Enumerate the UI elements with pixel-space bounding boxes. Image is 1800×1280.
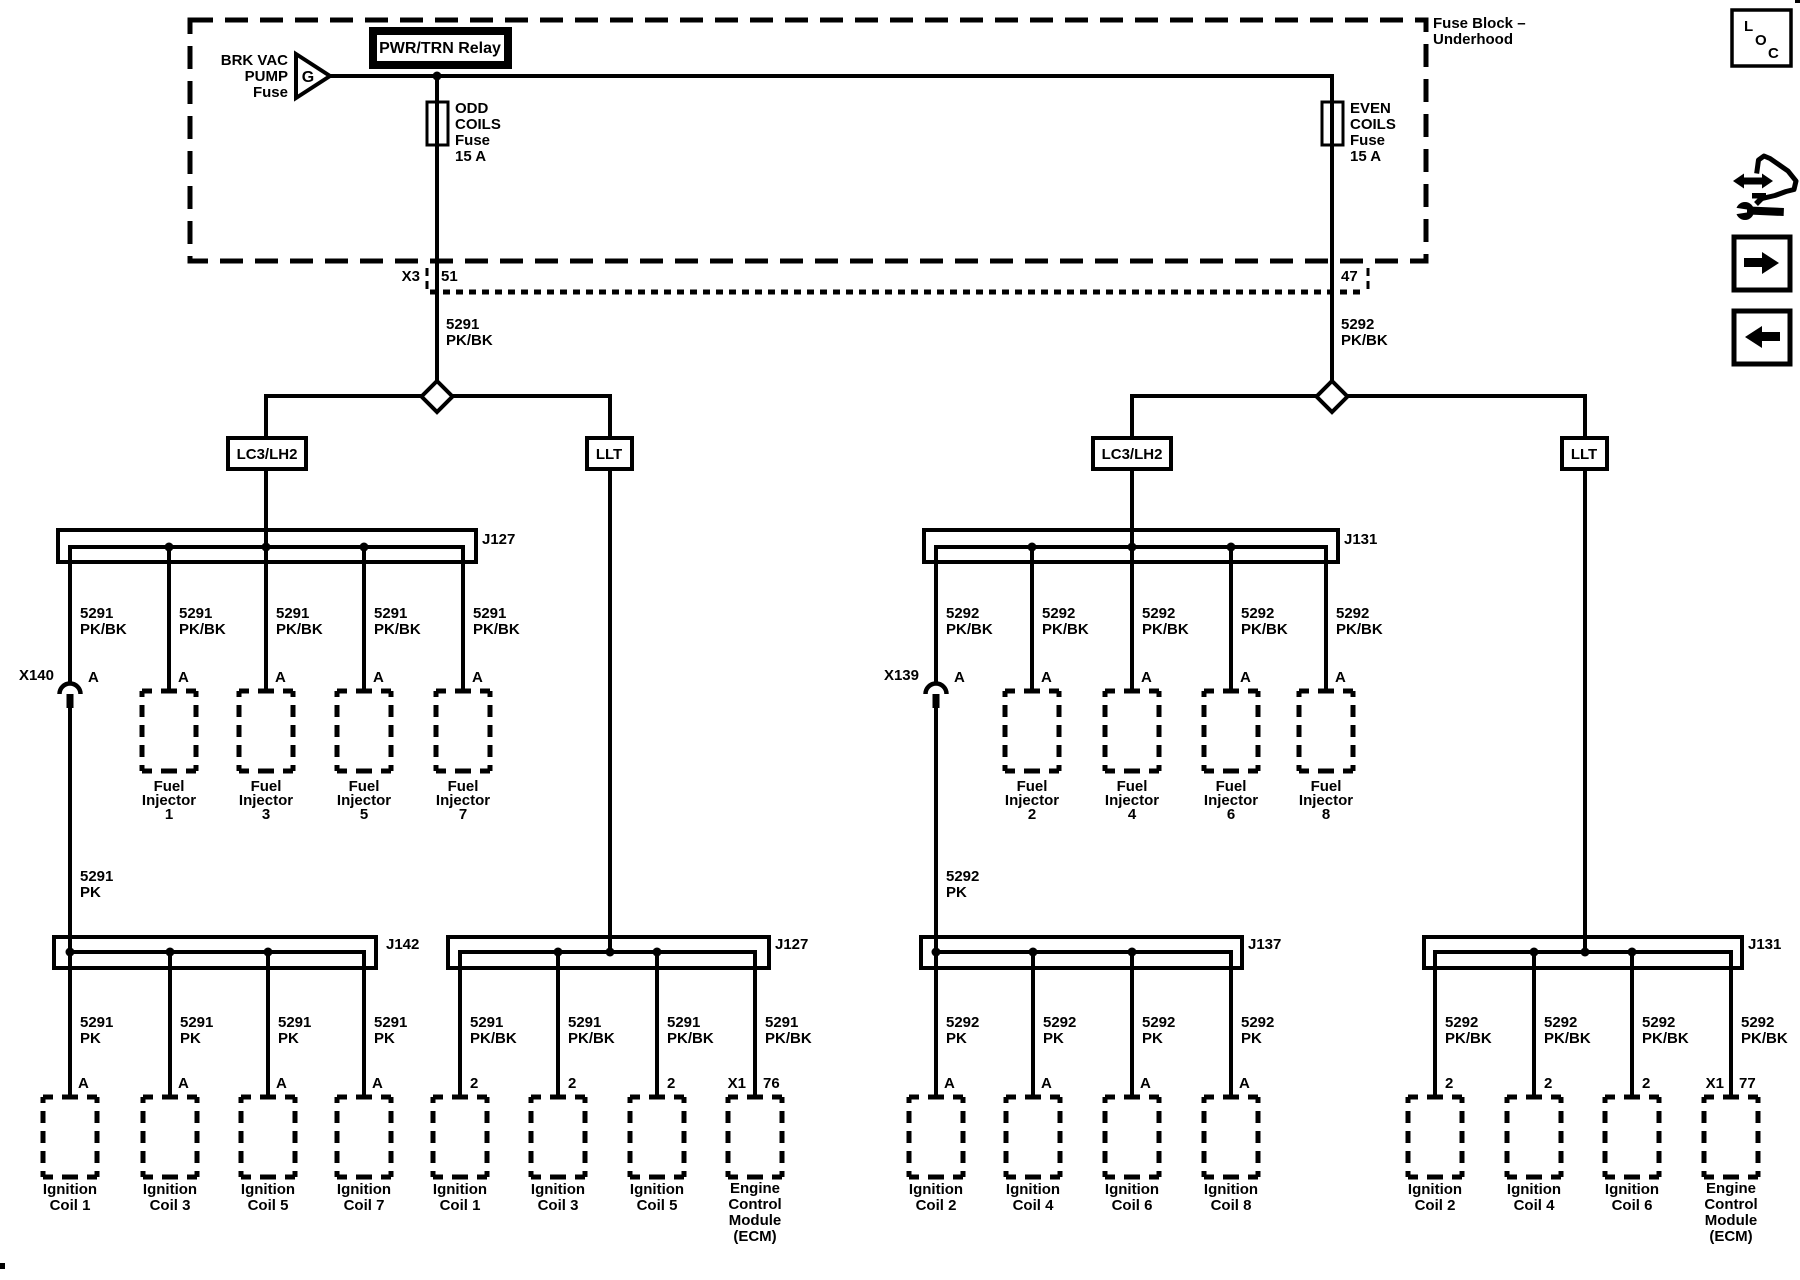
pin A label fuel injector x=1231 bbox=[1240, 669, 1251, 686]
wire: J142 to ignition coil 5 bbox=[266, 950, 270, 1097]
svg-text:Fuse: Fuse bbox=[1350, 132, 1385, 149]
ignition coil 8 box x=1231 bbox=[1202, 1095, 1261, 1215]
wire 5292 PK/BK label bbox=[1341, 316, 1388, 349]
pin A ignition coil x=70 bbox=[78, 1075, 89, 1092]
label J142 bbox=[386, 936, 419, 953]
wire 5291 PK label bbox=[80, 868, 113, 901]
svg-text:5292: 5292 bbox=[1336, 605, 1369, 622]
wire 5292 PK/BK label x=936 bbox=[946, 605, 993, 638]
pin A label X140 bbox=[88, 669, 99, 686]
fuel injector 5 box bbox=[335, 689, 394, 824]
svg-text:LLT: LLT bbox=[1571, 446, 1597, 463]
svg-text:6: 6 bbox=[1227, 806, 1235, 823]
svg-text:A: A bbox=[88, 669, 99, 686]
svg-text:2: 2 bbox=[1642, 1075, 1650, 1092]
wire: left diamond to LC3/LH2 branch bbox=[264, 394, 423, 438]
svg-text:4: 4 bbox=[1128, 806, 1137, 823]
fuse ODD COILS 15A symbol bbox=[427, 102, 448, 145]
svg-text:5292: 5292 bbox=[1142, 1014, 1175, 1031]
wire 5291 PK/BK label x=266 bbox=[276, 605, 323, 638]
label EVEN COILS Fuse 15 A bbox=[1350, 100, 1396, 165]
wire 5292 PK/BK label x=1132 bbox=[1142, 605, 1189, 638]
wire 5291 PK/BK label x=70 bbox=[80, 605, 127, 638]
svg-text:PK/BK: PK/BK bbox=[1544, 1030, 1591, 1047]
wire 5292 PK/BK label x=1032 bbox=[1042, 605, 1089, 638]
svg-text:A: A bbox=[1240, 669, 1251, 686]
junction dot J131 upper x=1231 bbox=[1227, 543, 1236, 552]
junction dot J137 x=1132 bbox=[1128, 948, 1137, 957]
wire: J131 lower drop to 4 bbox=[1532, 950, 1536, 1097]
svg-text:5291: 5291 bbox=[179, 605, 212, 622]
ignition coil 1 box x=460 bbox=[431, 1095, 490, 1215]
svg-text:2: 2 bbox=[667, 1075, 675, 1092]
pin A label fuel injector x=169 bbox=[178, 669, 189, 686]
svg-text:Ignition: Ignition bbox=[630, 1181, 684, 1198]
wire: J131 lower drop to 2 bbox=[1433, 950, 1437, 1097]
ignition coil 5 box x=657 bbox=[628, 1095, 687, 1215]
svg-text:5291: 5291 bbox=[80, 868, 113, 885]
svg-text:Coil 7: Coil 7 bbox=[344, 1197, 385, 1214]
pin 2 ignition coil x=657 bbox=[667, 1075, 675, 1092]
junction dot J142 x=70 bbox=[66, 948, 75, 957]
svg-text:Ignition: Ignition bbox=[1204, 1181, 1258, 1198]
svg-text:(ECM): (ECM) bbox=[733, 1228, 776, 1245]
svg-text:Control: Control bbox=[728, 1196, 781, 1213]
wire: even coils vertical drop bbox=[1330, 74, 1334, 381]
wire 5291 PK label x=170 bbox=[180, 1014, 213, 1047]
relay PWR/TRN Relay label box bbox=[369, 27, 512, 69]
svg-text:Coil 3: Coil 3 bbox=[538, 1197, 579, 1214]
svg-text:2: 2 bbox=[1445, 1075, 1453, 1092]
fuel injector 8 box bbox=[1297, 689, 1356, 824]
wire: J127 lower drop to 1 bbox=[458, 950, 462, 1097]
wire: X139 down to J137 bbox=[934, 708, 938, 952]
fuel injector 7 box bbox=[434, 689, 493, 824]
svg-text:A: A bbox=[276, 1075, 287, 1092]
pin A label fuel injector x=266 bbox=[275, 669, 286, 686]
svg-text:PK: PK bbox=[180, 1030, 201, 1047]
pin 2 ignition coil x=460 bbox=[470, 1075, 478, 1092]
connector X3 left tick bbox=[426, 268, 429, 292]
pin 2 ignition coil x=1435 bbox=[1445, 1075, 1453, 1092]
svg-text:J131: J131 bbox=[1344, 531, 1377, 548]
svg-text:PK/BK: PK/BK bbox=[1042, 621, 1089, 638]
junction dot J127 lower x=610 bbox=[606, 948, 615, 957]
svg-text:PK: PK bbox=[374, 1030, 395, 1047]
wire: LLT left long drop to lower J127 bbox=[608, 469, 612, 952]
svg-text:A: A bbox=[1335, 669, 1346, 686]
wire: J142 to ignition coil 1 bbox=[68, 950, 72, 1097]
wire: J127 lower drop to 5 bbox=[655, 950, 659, 1097]
wire 5291 PK/BK label x=169 bbox=[179, 605, 226, 638]
fuse symbol BRK VAC PUMP (triangle G) bbox=[296, 54, 330, 98]
junction dot J127 lower x=558 bbox=[554, 948, 563, 957]
bus J131 lower bbox=[1435, 950, 1731, 954]
ignition coil 3 box x=170 bbox=[141, 1095, 200, 1215]
wire: J127 to fuel injector 1 bbox=[167, 545, 171, 691]
svg-text:PK/BK: PK/BK bbox=[1642, 1030, 1689, 1047]
svg-text:PK: PK bbox=[80, 1030, 101, 1047]
pin 2 ignition coil x=1632 bbox=[1642, 1075, 1650, 1092]
wire 5292 PK label x=1231 bbox=[1241, 1014, 1274, 1047]
svg-text:EVEN: EVEN bbox=[1350, 100, 1391, 117]
svg-text:PK/BK: PK/BK bbox=[276, 621, 323, 638]
svg-text:LLT: LLT bbox=[596, 446, 622, 463]
wire: J137 to ignition coil 6 bbox=[1130, 950, 1134, 1097]
pin A label fuel injector x=1032 bbox=[1041, 669, 1052, 686]
ignition coil 4 box x=1534 bbox=[1505, 1095, 1564, 1215]
svg-text:Coil 5: Coil 5 bbox=[637, 1197, 678, 1214]
junction dot at relay bus / odd coils drop bbox=[433, 72, 442, 81]
tag box LC3/LH2 left bbox=[228, 438, 306, 469]
svg-text:PK/BK: PK/BK bbox=[568, 1030, 615, 1047]
label ODD COILS Fuse 15 A bbox=[455, 100, 501, 165]
fuse EVEN COILS 15A symbol bbox=[1322, 102, 1343, 145]
svg-text:A: A bbox=[178, 1075, 189, 1092]
icon back arrow box bbox=[1734, 311, 1790, 364]
splice pack J131 upper outline bbox=[924, 530, 1338, 562]
svg-text:PK: PK bbox=[1043, 1030, 1064, 1047]
svg-text:5292: 5292 bbox=[1741, 1014, 1774, 1031]
pin A ignition coil x=936 bbox=[944, 1075, 955, 1092]
splice pack J127 lower outline bbox=[448, 937, 769, 968]
svg-text:PWR/TRN Relay: PWR/TRN Relay bbox=[379, 40, 501, 57]
pin 47 label bbox=[1341, 268, 1358, 285]
svg-text:A: A bbox=[1140, 1075, 1151, 1092]
ignition coil 2 box x=936 bbox=[907, 1095, 966, 1215]
wire 5291 PK label x=268 bbox=[278, 1014, 311, 1047]
ignition coil 5 box x=268 bbox=[239, 1095, 298, 1215]
svg-text:1: 1 bbox=[165, 806, 173, 823]
svg-text:Ignition: Ignition bbox=[433, 1181, 487, 1198]
svg-text:PK: PK bbox=[946, 884, 967, 901]
svg-text:PK/BK: PK/BK bbox=[470, 1030, 517, 1047]
svg-text:Engine: Engine bbox=[730, 1180, 780, 1197]
ignition coil 7 box x=364 bbox=[335, 1095, 394, 1215]
svg-text:PK: PK bbox=[1142, 1030, 1163, 1047]
splice diamond left bbox=[422, 381, 453, 412]
svg-text:J127: J127 bbox=[482, 531, 515, 548]
svg-text:LC3/LH2: LC3/LH2 bbox=[1102, 446, 1163, 463]
label J137 bbox=[1248, 936, 1281, 953]
svg-text:A: A bbox=[1041, 1075, 1052, 1092]
wire: left diamond to LLT branch bbox=[451, 394, 612, 438]
svg-text:Coil 1: Coil 1 bbox=[50, 1197, 91, 1214]
svg-text:Ignition: Ignition bbox=[1105, 1181, 1159, 1198]
svg-text:Engine: Engine bbox=[1706, 1180, 1756, 1197]
wire 5292 PK/BK label x=1326 bbox=[1336, 605, 1383, 638]
svg-text:Control: Control bbox=[1704, 1196, 1757, 1213]
page mark top-right bbox=[1795, 0, 1800, 3]
wire 5292 PK/BK label lower x=1534 bbox=[1544, 1014, 1591, 1047]
svg-text:76: 76 bbox=[763, 1075, 780, 1092]
svg-text:LC3/LH2: LC3/LH2 bbox=[237, 446, 298, 463]
svg-text:PK: PK bbox=[1241, 1030, 1262, 1047]
svg-text:X3: X3 bbox=[402, 268, 420, 285]
inline connector X139 symbol bbox=[926, 684, 947, 709]
wire: LLT right long drop to lower J131 bbox=[1583, 469, 1587, 952]
wire: relay output horizontal bus bbox=[330, 74, 1334, 78]
wire: X140 down to J142 bbox=[68, 708, 72, 952]
svg-text:PUMP: PUMP bbox=[245, 68, 288, 85]
svg-text:5291: 5291 bbox=[80, 605, 113, 622]
svg-text:Ignition: Ignition bbox=[1408, 1181, 1462, 1198]
bus J131 upper bbox=[936, 545, 1326, 549]
pin A ignition coil x=1033 bbox=[1041, 1075, 1052, 1092]
svg-text:PK/BK: PK/BK bbox=[374, 621, 421, 638]
junction dot J131 lower x=1534 bbox=[1530, 948, 1539, 957]
svg-text:Ignition: Ignition bbox=[1006, 1181, 1060, 1198]
wire: J127 to fuel injector 7 bbox=[461, 545, 465, 691]
svg-text:Ignition: Ignition bbox=[1507, 1181, 1561, 1198]
wire 5291 PK label x=364 bbox=[374, 1014, 407, 1047]
wire 5292 PK/BK label lower x=1632 bbox=[1642, 1014, 1689, 1047]
svg-text:Coil 1: Coil 1 bbox=[440, 1197, 481, 1214]
bus J127 upper bbox=[70, 545, 463, 549]
wire: J127 to fuel injector 3 (through) bbox=[264, 545, 268, 691]
wire 5291 PK/BK label x=364 bbox=[374, 605, 421, 638]
svg-text:51: 51 bbox=[441, 268, 458, 285]
splice pack J131 lower outline bbox=[1424, 937, 1742, 968]
svg-text:A: A bbox=[275, 669, 286, 686]
tag box LLT left bbox=[587, 438, 632, 469]
svg-text:5291: 5291 bbox=[446, 316, 479, 333]
svg-text:COILS: COILS bbox=[1350, 116, 1396, 133]
wire: LC3/LH2 left to splice pack J127 bbox=[264, 469, 268, 691]
pin A label fuel injector x=1132 bbox=[1141, 669, 1152, 686]
svg-text:Coil 6: Coil 6 bbox=[1112, 1197, 1153, 1214]
icon schematic-reference (arrows and wrench) bbox=[1733, 156, 1796, 220]
svg-text:G: G bbox=[302, 69, 314, 86]
label J127 lower bbox=[775, 936, 808, 953]
svg-text:Underhood: Underhood bbox=[1433, 31, 1513, 48]
svg-text:PK/BK: PK/BK bbox=[179, 621, 226, 638]
svg-text:PK/BK: PK/BK bbox=[446, 332, 493, 349]
pin 51 label bbox=[441, 268, 458, 285]
svg-text:J127: J127 bbox=[775, 936, 808, 953]
svg-text:5291: 5291 bbox=[276, 605, 309, 622]
svg-text:X1: X1 bbox=[728, 1075, 746, 1092]
svg-text:Ignition: Ignition bbox=[43, 1181, 97, 1198]
wire 5291 PK/BK label lower x=657 bbox=[667, 1014, 714, 1047]
svg-text:A: A bbox=[1239, 1075, 1250, 1092]
ignition coil 2 box x=1435 bbox=[1406, 1095, 1465, 1215]
label J131 upper bbox=[1344, 531, 1377, 548]
splice pack J137 outline bbox=[921, 937, 1242, 968]
fuel injector 1 box bbox=[140, 689, 199, 824]
engine control module ECM box x=1731 bbox=[1702, 1095, 1761, 1246]
svg-text:J131: J131 bbox=[1748, 936, 1781, 953]
svg-text:PK/BK: PK/BK bbox=[473, 621, 520, 638]
svg-text:5292: 5292 bbox=[1642, 1014, 1675, 1031]
ignition coil 6 box x=1132 bbox=[1103, 1095, 1162, 1215]
svg-text:2: 2 bbox=[470, 1075, 478, 1092]
wire 5292 PK label x=1132 bbox=[1142, 1014, 1175, 1047]
svg-text:5291: 5291 bbox=[470, 1014, 503, 1031]
svg-text:5292: 5292 bbox=[1241, 605, 1274, 622]
svg-text:A: A bbox=[373, 669, 384, 686]
junction dot J131 lower x=1632 bbox=[1628, 948, 1637, 957]
svg-text:PK/BK: PK/BK bbox=[1142, 621, 1189, 638]
connector X3 right tick bbox=[1367, 268, 1370, 292]
svg-text:5292: 5292 bbox=[1341, 316, 1374, 333]
fuel injector 6 box bbox=[1202, 689, 1261, 824]
fuse block (Fuse Block - Underhood) dashed outline bbox=[190, 20, 1426, 261]
svg-text:5292: 5292 bbox=[1142, 605, 1175, 622]
fuel injector 2 box bbox=[1003, 689, 1062, 824]
svg-text:Coil 4: Coil 4 bbox=[1013, 1197, 1054, 1214]
tag box LLT right bbox=[1562, 438, 1607, 469]
svg-text:X1: X1 bbox=[1706, 1075, 1724, 1092]
pin 2 ignition coil x=558 bbox=[568, 1075, 576, 1092]
svg-text:2: 2 bbox=[1028, 806, 1036, 823]
svg-text:3: 3 bbox=[262, 806, 270, 823]
wire 5292 PK/BK label lower x=1435 bbox=[1445, 1014, 1492, 1047]
svg-text:Ignition: Ignition bbox=[143, 1181, 197, 1198]
svg-text:5292: 5292 bbox=[1042, 605, 1075, 622]
inline connector X140 symbol bbox=[60, 684, 81, 709]
svg-text:Fuse: Fuse bbox=[455, 132, 490, 149]
svg-text:C: C bbox=[1768, 45, 1779, 62]
ignition coil 1 box x=70 bbox=[41, 1095, 100, 1215]
wire: J127 lower drop to ECM bbox=[753, 950, 757, 1097]
svg-text:Ignition: Ignition bbox=[337, 1181, 391, 1198]
svg-text:A: A bbox=[1041, 669, 1052, 686]
svg-text:5291: 5291 bbox=[473, 605, 506, 622]
tag box LC3/LH2 right bbox=[1093, 438, 1171, 469]
wire: J131 to X139 bbox=[934, 545, 938, 683]
wire 5291 PK/BK label lower x=460 bbox=[470, 1014, 517, 1047]
wire: J131 lower drop to 6 bbox=[1630, 950, 1634, 1097]
svg-text:A: A bbox=[1141, 669, 1152, 686]
wire: J131 lower drop to ECM bbox=[1729, 950, 1733, 1097]
pin A ignition coil x=364 bbox=[372, 1075, 383, 1092]
svg-text:Fuse Block –: Fuse Block – bbox=[1433, 15, 1526, 32]
wire 5292 PK label x=936 bbox=[946, 1014, 979, 1047]
svg-text:A: A bbox=[78, 1075, 89, 1092]
wire 5291 PK/BK label x=463 bbox=[473, 605, 520, 638]
pin 2 ignition coil x=1534 bbox=[1544, 1075, 1552, 1092]
junction dot J127 upper x=266 bbox=[262, 543, 271, 552]
svg-text:PK/BK: PK/BK bbox=[1336, 621, 1383, 638]
junction dot J127 lower x=657 bbox=[653, 948, 662, 957]
bus J142 bbox=[70, 950, 364, 954]
label X3 bbox=[402, 268, 420, 285]
svg-text:7: 7 bbox=[459, 806, 467, 823]
svg-text:8: 8 bbox=[1322, 806, 1330, 823]
icon LOC box bbox=[1732, 10, 1791, 66]
junction dot J137 x=1033 bbox=[1029, 948, 1038, 957]
label X140 bbox=[19, 667, 54, 684]
wire 5292 PK/BK label lower x=1731 bbox=[1741, 1014, 1788, 1047]
bus J137 bbox=[936, 950, 1231, 954]
engine control module ECM box x=755 bbox=[726, 1095, 785, 1246]
svg-text:5292: 5292 bbox=[1241, 1014, 1274, 1031]
pin A label fuel injector x=364 bbox=[373, 669, 384, 686]
svg-text:5291: 5291 bbox=[374, 605, 407, 622]
junction dot J131 upper x=1132 bbox=[1128, 543, 1137, 552]
svg-text:(ECM): (ECM) bbox=[1709, 1228, 1752, 1245]
pin A label fuel injector x=1326 bbox=[1335, 669, 1346, 686]
svg-text:PK/BK: PK/BK bbox=[1241, 621, 1288, 638]
pin X1 77 label ECM right bbox=[1706, 1075, 1756, 1092]
svg-text:Coil 8: Coil 8 bbox=[1211, 1197, 1252, 1214]
svg-text:Fuse: Fuse bbox=[253, 84, 288, 101]
svg-text:PK/BK: PK/BK bbox=[1741, 1030, 1788, 1047]
svg-text:PK/BK: PK/BK bbox=[765, 1030, 812, 1047]
svg-text:5291: 5291 bbox=[278, 1014, 311, 1031]
wire: odd coils vertical drop bbox=[435, 74, 439, 381]
wire: right diamond to LLT branch bbox=[1346, 394, 1587, 438]
pin A ignition coil x=1231 bbox=[1239, 1075, 1250, 1092]
svg-text:5291: 5291 bbox=[180, 1014, 213, 1031]
splice pack J142 outline bbox=[54, 937, 376, 968]
pin A ignition coil x=1132 bbox=[1140, 1075, 1151, 1092]
svg-text:Coil 2: Coil 2 bbox=[916, 1197, 957, 1214]
svg-text:15 A: 15 A bbox=[455, 148, 486, 165]
svg-text:PK: PK bbox=[278, 1030, 299, 1047]
svg-text:Ignition: Ignition bbox=[531, 1181, 585, 1198]
svg-text:PK/BK: PK/BK bbox=[1445, 1030, 1492, 1047]
svg-text:X139: X139 bbox=[884, 667, 919, 684]
wire: J131 to fuel injector 4 (through) bbox=[1130, 545, 1134, 691]
svg-text:PK/BK: PK/BK bbox=[1341, 332, 1388, 349]
wire 5291 PK/BK label bbox=[446, 316, 493, 349]
junction dot J142 x=170 bbox=[166, 948, 175, 957]
wire: J127 to X140 bbox=[68, 545, 72, 683]
svg-text:X140: X140 bbox=[19, 667, 54, 684]
svg-text:A: A bbox=[472, 669, 483, 686]
svg-text:J142: J142 bbox=[386, 936, 419, 953]
svg-text:5292: 5292 bbox=[1043, 1014, 1076, 1031]
wire 5292 PK label bbox=[946, 868, 979, 901]
svg-text:Coil 5: Coil 5 bbox=[248, 1197, 289, 1214]
page mark bottom-left bbox=[0, 1263, 5, 1269]
svg-text:Ignition: Ignition bbox=[909, 1181, 963, 1198]
label Fuse Block - Underhood bbox=[1433, 15, 1526, 48]
svg-text:5291: 5291 bbox=[765, 1014, 798, 1031]
svg-text:5291: 5291 bbox=[568, 1014, 601, 1031]
svg-text:5291: 5291 bbox=[374, 1014, 407, 1031]
pin A ignition coil x=268 bbox=[276, 1075, 287, 1092]
fuel injector 4 box bbox=[1103, 689, 1162, 824]
pin A label fuel injector x=463 bbox=[472, 669, 483, 686]
wire: J127 to fuel injector 5 bbox=[362, 545, 366, 691]
svg-text:47: 47 bbox=[1341, 268, 1358, 285]
svg-text:A: A bbox=[944, 1075, 955, 1092]
wire 5292 PK/BK label x=1231 bbox=[1241, 605, 1288, 638]
svg-text:A: A bbox=[372, 1075, 383, 1092]
svg-text:Module: Module bbox=[729, 1212, 782, 1229]
junction dot J137 x=936 bbox=[932, 948, 941, 957]
svg-text:PK/BK: PK/BK bbox=[667, 1030, 714, 1047]
svg-text:2: 2 bbox=[1544, 1075, 1552, 1092]
wire 5291 PK label x=70 bbox=[80, 1014, 113, 1047]
svg-text:15 A: 15 A bbox=[1350, 148, 1381, 165]
svg-text:A: A bbox=[954, 669, 965, 686]
svg-text:5292: 5292 bbox=[1445, 1014, 1478, 1031]
ignition coil 4 box x=1033 bbox=[1004, 1095, 1063, 1215]
wire: J137 to ignition coil 4 bbox=[1031, 950, 1035, 1097]
svg-text:Coil 2: Coil 2 bbox=[1415, 1197, 1456, 1214]
svg-text:5291: 5291 bbox=[667, 1014, 700, 1031]
wire 5291 PK/BK label lower x=558 bbox=[568, 1014, 615, 1047]
label J131 lower bbox=[1748, 936, 1781, 953]
junction dot J131 upper x=1032 bbox=[1028, 543, 1037, 552]
svg-text:L: L bbox=[1744, 18, 1753, 35]
svg-text:PK: PK bbox=[946, 1030, 967, 1047]
svg-text:PK/BK: PK/BK bbox=[946, 621, 993, 638]
